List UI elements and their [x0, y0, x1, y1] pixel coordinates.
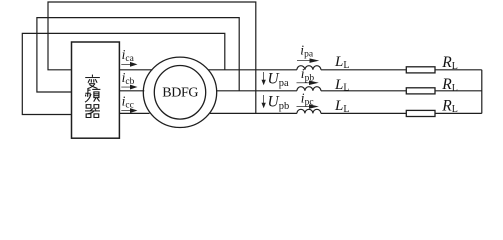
wire right bus joining three lines — [481, 70, 483, 114]
wire feedback loop from line b to converter (middle) — [37, 18, 239, 92]
wire line c from resistor to right bus — [435, 112, 482, 114]
svg-text:Upa: Upa — [268, 71, 289, 90]
converter label 频 (SVG strokes) — [85, 88, 100, 102]
wire line a from generator to inductor — [208, 69, 297, 71]
wire feedback loop from line a to converter (outer) — [22, 33, 225, 114]
generator BDFG outer circle — [143, 57, 216, 127]
svg-text:LL: LL — [334, 98, 349, 115]
svg-text:icb: icb — [122, 70, 135, 87]
svg-text:RL: RL — [441, 54, 458, 72]
current arrow i_cc — [121, 108, 137, 113]
current arrow i_pa — [297, 58, 319, 63]
wire line b from generator to inductor — [217, 90, 297, 92]
resistor R_L line a — [406, 67, 435, 73]
inductor L_L line c — [297, 109, 321, 113]
current arrow i_cb — [121, 85, 137, 90]
svg-text:icc: icc — [122, 93, 134, 110]
voltage arrow U_pb (down) — [262, 95, 266, 108]
wire line a from inductor to resistor — [321, 69, 406, 71]
resistor R_L line b — [406, 88, 435, 94]
current arrow i_ca — [121, 62, 137, 67]
wire line c from inductor to resistor — [321, 112, 406, 114]
converter label 器 (SVG strokes) — [85, 105, 100, 118]
current arrow i_pb — [297, 81, 319, 86]
svg-text:ipa: ipa — [300, 42, 314, 59]
svg-text:RL: RL — [441, 76, 458, 94]
svg-text:BDFG: BDFG — [162, 85, 198, 100]
resistor R_L line c — [406, 110, 435, 116]
wire line b from resistor to right bus — [435, 90, 482, 92]
inductor L_L line b — [297, 87, 321, 91]
svg-text:RL: RL — [441, 97, 458, 115]
converter box 变频器 — [72, 42, 120, 138]
current arrow i_pc — [297, 104, 319, 109]
wire i_cb from converter to generator — [119, 90, 144, 92]
generator BDFG inner circle — [154, 66, 205, 120]
wire i_ca from converter to generator — [119, 69, 152, 71]
svg-text:LL: LL — [334, 77, 349, 94]
wire i_cc from converter to generator — [119, 112, 149, 114]
converter label 变 (SVG strokes) — [85, 75, 100, 89]
wire line c from generator to inductor — [210, 112, 297, 114]
svg-text:Upb: Upb — [268, 94, 290, 113]
voltage arrow U_pa (down) — [262, 72, 266, 85]
svg-text:ipc: ipc — [301, 90, 314, 107]
svg-text:ica: ica — [122, 47, 135, 64]
inductor L_L line a — [297, 66, 321, 70]
svg-text:LL: LL — [334, 54, 349, 71]
wire line a from resistor to right bus — [435, 69, 482, 71]
wire feedback loop from line c to converter (inner/top) — [48, 2, 256, 113]
wire line b from inductor to resistor — [321, 90, 406, 92]
